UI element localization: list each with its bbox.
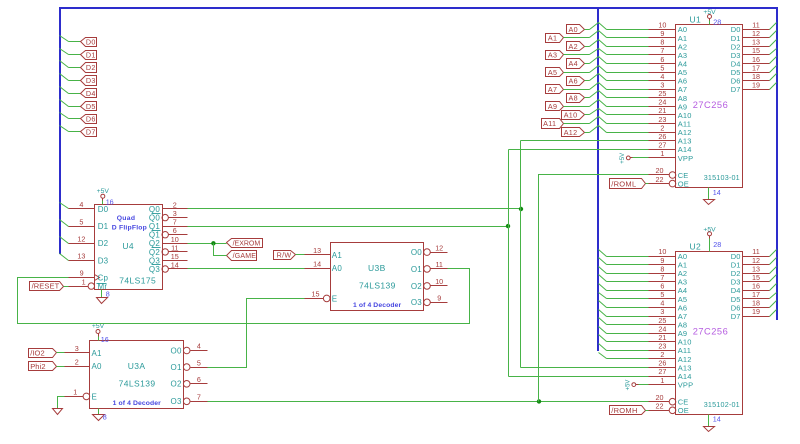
- pin 21 (A10) of U1: [649, 106, 692, 120]
- bus entry: address bus to U2 A7: [599, 310, 607, 317]
- IC U3B 74LS139 outline: [331, 243, 424, 311]
- +5V power symbol at U1 pin 28: [703, 9, 716, 24]
- hierarchical label A5: [546, 68, 564, 77]
- svg-text:U3A: U3A: [128, 361, 146, 371]
- hierarchical label A2: [567, 42, 585, 52]
- pin 20 (CE) of U2 with inversion bubble: [649, 393, 689, 407]
- svg-text:5: 5: [79, 217, 83, 226]
- pin 10 (A0) of U2: [649, 247, 688, 261]
- svg-text:315103-01: 315103-01: [704, 173, 740, 182]
- svg-text:A11: A11: [543, 119, 556, 128]
- pin 12 (D1) of U1: [731, 29, 770, 43]
- bus entry: address bus to U2 A0: [599, 250, 607, 257]
- wire: address bus entry to U2 A7 pin: [607, 316, 649, 318]
- pin 26 (A13) of U2: [649, 359, 692, 373]
- svg-text:A0: A0: [569, 25, 578, 34]
- wire: address bus entry to U1 A8 pin: [607, 97, 649, 99]
- wire: address bus entry to U2 A2 pin: [607, 273, 649, 275]
- pin 2 (A0) of U3A: [65, 357, 103, 371]
- bus entry (chevron) at address bus for U1 A12: [590, 126, 607, 133]
- pin 3 (A7) of U2: [649, 307, 688, 321]
- bus entry + wire: data bus to label D4: [60, 87, 81, 94]
- pin 5 (A5) of U2: [649, 290, 688, 304]
- svg-text:16: 16: [101, 335, 109, 344]
- svg-text:/RESET: /RESET: [32, 282, 60, 291]
- pin 27 (A14) of U2: [649, 367, 692, 381]
- wire: address bus entry to U2 A5 pin: [607, 298, 649, 300]
- svg-text:15: 15: [312, 290, 320, 299]
- wire: R/W label to U3B A1 pin: [296, 254, 305, 256]
- wire: address bus entry to U1 A1 pin: [607, 37, 649, 39]
- svg-text:A3: A3: [548, 51, 557, 60]
- hierarchical label D2: [81, 63, 97, 73]
- bus entry: data bus to U4 D1: [60, 220, 69, 227]
- svg-text:D1: D1: [86, 50, 96, 59]
- wire: label A12 to address bus: [585, 132, 590, 134]
- wire: branch down to /GAME label: [214, 244, 227, 256]
- wire: label /ROML to U1 OE pin: [646, 183, 649, 185]
- svg-text:O1: O1: [411, 265, 422, 274]
- pin 12 (O0) of U3B with inversion bubble: [411, 243, 448, 257]
- svg-text:12: 12: [77, 235, 85, 244]
- pin 7 (A3) of U2: [649, 273, 688, 287]
- bus: main data bus (left vertical, top horizontal, right vertical): [60, 8, 777, 320]
- junction on A13 net at U4 Q0 wire: [519, 207, 523, 211]
- svg-text:OE: OE: [678, 180, 689, 189]
- pin 9 (Cp clock) of U4: [69, 269, 109, 283]
- U2 reference designator: [690, 241, 702, 251]
- pin 4 (A6) of U2: [649, 299, 688, 313]
- junction on CE net below U1: [537, 399, 541, 403]
- hierarchical label R/W: [274, 251, 296, 260]
- pin 28 (VCC) of U1: [713, 18, 721, 27]
- +5V power symbol at U4 pin 16: [97, 188, 110, 205]
- svg-text:D6: D6: [86, 115, 96, 124]
- bus entry: U1 D5 to data bus: [770, 66, 777, 73]
- bus entry: address bus to U2 A5: [599, 293, 607, 299]
- bus entry (chevron) at address bus for U1 A9: [590, 100, 607, 107]
- wire: label A2 to address bus: [585, 46, 590, 48]
- svg-text:74LS175: 74LS175: [119, 275, 156, 285]
- wire: A14 net vertical to U1 A14 and U2 A14: [509, 150, 649, 377]
- hierarchical label /ROMH: [610, 406, 646, 416]
- bus entry: address bus to U2 A1: [599, 258, 607, 265]
- pin 8 (GND) of U4: [106, 290, 110, 299]
- svg-text:27C256: 27C256: [693, 327, 729, 337]
- svg-text:A4: A4: [569, 59, 578, 68]
- wire: label A7 to address bus: [564, 89, 590, 91]
- U4 description text Quad / D FlipFlop: [112, 215, 147, 231]
- svg-text:E: E: [92, 392, 98, 401]
- bus entry (chevron) at address bus for U1 A6: [590, 74, 607, 81]
- svg-text:D5: D5: [86, 102, 96, 111]
- svg-text:A2: A2: [569, 42, 578, 51]
- pin 23 (A11) of U1: [649, 115, 692, 129]
- svg-text:A1: A1: [548, 34, 557, 43]
- pin 7 (A3) of U1: [649, 46, 688, 60]
- ground symbol at U4 pin 8: [97, 290, 108, 304]
- pin 7 (Q1) of U4: [149, 218, 188, 231]
- svg-text:8: 8: [103, 413, 107, 422]
- svg-text:U3B: U3B: [368, 263, 386, 273]
- pin 27 (A14) of U1: [649, 141, 692, 155]
- bus entry: U1 D7 to data bus: [770, 83, 777, 90]
- bus entry (chevron) at address bus for U1 A11: [590, 117, 607, 124]
- svg-text:1 of 4 Decoder: 1 of 4 Decoder: [353, 302, 401, 309]
- pin 8 (A2) of U2: [649, 264, 688, 278]
- wire: address bus entry to U2 A8 pin: [607, 324, 649, 326]
- pin 17 (D5) of U2: [731, 290, 770, 304]
- bus entry + wire: data bus to label D6: [60, 113, 81, 119]
- pin 5 (A5) of U1: [649, 63, 688, 77]
- svg-text:14: 14: [713, 415, 721, 424]
- pin 13 (D3) of U4: [69, 252, 109, 266]
- bus entry (chevron) at address bus for U1 A0: [590, 23, 607, 30]
- svg-text:O2: O2: [171, 380, 182, 389]
- +5V power symbol at U3A pin 16: [92, 323, 105, 340]
- ground symbol at U3A pin 8: [93, 409, 105, 421]
- wire: address bus entry to U2 A11 pin: [607, 350, 649, 352]
- pin 18 (D6) of U1: [731, 72, 770, 86]
- pin 12 (D1) of U2: [731, 256, 770, 270]
- svg-text:D7: D7: [86, 128, 96, 137]
- bus entry (chevron) at address bus for U1 A7: [590, 83, 607, 90]
- EPROM U2 27C256 outline: [676, 252, 743, 415]
- hierarchical label A4: [567, 59, 585, 69]
- hierarchical label D4: [81, 89, 97, 98]
- hierarchical label /GAME: [227, 251, 257, 261]
- pin 24 (A9) of U1: [649, 98, 688, 112]
- U3B reference designator: [368, 263, 386, 273]
- wire: address bus entry to U1 A4 pin: [607, 63, 649, 65]
- EPROM U1 27C256 outline: [676, 25, 743, 188]
- wire: label A10 to address bus: [585, 114, 590, 116]
- wire: address bus entry to U2 A10 pin: [607, 341, 649, 343]
- svg-text:U4: U4: [122, 241, 134, 251]
- hierarchical label A9: [546, 102, 564, 112]
- U3A value 74LS139: [119, 379, 156, 389]
- wire: address bus entry to U1 A2 pin: [607, 46, 649, 48]
- bus entry + wire: data bus to label D7: [60, 126, 81, 132]
- hierarchical label A11: [542, 119, 564, 129]
- wire: U3A O1 (pin 5) to U3B E (pin 15): [208, 299, 305, 368]
- bus entry: data bus to U4 D0: [60, 203, 69, 209]
- wire: U4 Q0 (pin 2) to A13 net vertical: [188, 208, 521, 210]
- hierarchical label A12: [562, 128, 585, 137]
- wire: address bus entry to U2 A9 pin: [607, 333, 649, 335]
- svg-text:O1: O1: [171, 363, 182, 372]
- bus entry: address bus to U2 A11: [599, 344, 607, 351]
- svg-text:7: 7: [197, 393, 201, 402]
- bus entry (chevron) at address bus for U1 A4: [590, 57, 607, 64]
- svg-text:A5: A5: [548, 68, 557, 77]
- U1 reference designator: [690, 15, 702, 25]
- pin 5 (O1) of U3A with inversion bubble: [171, 358, 208, 372]
- wire: address bus entry to U2 A0 pin: [607, 256, 649, 258]
- +5V power symbol at U2 VPP (rotated): [626, 380, 639, 391]
- U4 value 74LS175: [119, 275, 156, 285]
- pin 11 (D0) of U2: [731, 247, 770, 261]
- wire: U3A O3 (pin 7) to U2 CE (pin 20) — ROM chip-enable net: [208, 401, 649, 403]
- wire: label A1 to address bus: [564, 37, 590, 39]
- svg-text:/ROMH: /ROMH: [611, 406, 638, 415]
- svg-text:1: 1: [82, 277, 86, 286]
- pin 16 (VCC) of U3A: [101, 335, 109, 344]
- bus: address bus (middle vertical): [597, 8, 599, 351]
- pin 15 (E enable) of U3B with inversion bubble: [305, 290, 338, 304]
- U1 part number 315103-01: [704, 173, 740, 182]
- pin 1 (VPP) of U2: [649, 376, 694, 390]
- pin 17 (D5) of U1: [731, 63, 770, 77]
- wire: address bus entry to U1 A7 pin: [607, 89, 649, 91]
- svg-text:Phi2: Phi2: [30, 362, 45, 371]
- svg-text:6: 6: [197, 375, 201, 384]
- svg-text:5: 5: [197, 358, 201, 367]
- svg-text:O3: O3: [171, 397, 182, 406]
- wire: label /ROMH to U2 OE pin: [646, 410, 649, 412]
- junction at /EXROM-/GAME branch: [211, 241, 215, 245]
- pin 6 (Q1-bar) of U4 with inversion bubble: [149, 226, 188, 239]
- pin 2 (A12) of U2: [649, 350, 692, 364]
- wire: address bus entry to U1 A9 pin: [607, 106, 649, 108]
- bus entry: U2 D0 to data bus: [770, 250, 777, 257]
- wire: label A8 to address bus: [585, 97, 590, 99]
- hierarchical label D0: [81, 38, 97, 47]
- +5V power symbol at U1 VPP (rotated): [620, 153, 632, 164]
- svg-text:R/W: R/W: [277, 251, 292, 260]
- svg-text:27C256: 27C256: [693, 100, 729, 110]
- svg-text:4: 4: [79, 200, 83, 209]
- svg-text:13: 13: [77, 252, 85, 261]
- svg-text:12: 12: [435, 243, 443, 252]
- bus entry + wire: data bus to label D3: [60, 74, 81, 81]
- svg-text:OE: OE: [678, 406, 689, 415]
- hierarchical label /ROML: [610, 179, 646, 189]
- svg-text:315102-01: 315102-01: [704, 400, 740, 409]
- pin 3 (Q0-bar) of U4 with inversion bubble: [149, 209, 188, 222]
- svg-text:19: 19: [752, 81, 760, 90]
- bus entry: data bus to U4 D3: [60, 254, 69, 261]
- wire: +5V to U2 VPP pin: [639, 384, 649, 386]
- svg-text:D3: D3: [98, 256, 109, 265]
- wire: label A3 to address bus: [564, 54, 590, 56]
- pin 19 (D7) of U1: [731, 81, 770, 95]
- wire: address bus entry to U2 A3 pin: [607, 281, 649, 283]
- bus entry: U1 D4 to data bus: [770, 57, 777, 64]
- svg-text:D4: D4: [86, 89, 96, 98]
- pin 4 (O0) of U3A with inversion bubble: [171, 342, 208, 356]
- pin 12 (D2) of U4: [69, 235, 109, 249]
- pin 20 (CE) of U1 with inversion bubble: [649, 166, 689, 180]
- pin 11 (D0) of U1: [731, 21, 770, 35]
- wire: address bus entry to U1 A0 pin: [607, 29, 649, 31]
- hierarchical label A3: [546, 51, 564, 60]
- bus entry: U2 D2 to data bus: [770, 267, 777, 274]
- pin 18 (D6) of U2: [731, 299, 770, 313]
- svg-text:1: 1: [660, 376, 664, 385]
- svg-text:2: 2: [75, 357, 79, 366]
- svg-text:+5V: +5V: [626, 380, 632, 391]
- pin 1 (Mr master reset) of U4 with inversion bubble: [69, 277, 108, 291]
- pin 25 (A8) of U1: [649, 89, 688, 103]
- wire: address bus entry to U2 A1 pin: [607, 264, 649, 266]
- wire: +5V to U1 VPP pin: [633, 157, 649, 159]
- pin 8 (A2) of U1: [649, 38, 688, 52]
- svg-text:1: 1: [73, 388, 77, 397]
- svg-text:8: 8: [106, 290, 110, 299]
- pin 23 (A11) of U2: [649, 342, 692, 356]
- svg-text:74LS139: 74LS139: [359, 281, 396, 291]
- pin 13 (A1) of U3B: [305, 246, 343, 260]
- wire: address bus entry to U1 A3 pin: [607, 54, 649, 56]
- wire: U4 Q3-bar (pin 14) to U3B A0 (pin 14): [188, 268, 305, 270]
- hierarchical label D6: [81, 115, 97, 124]
- pin 10 (A0) of U1: [649, 21, 688, 35]
- svg-text:/IO2: /IO2: [30, 349, 45, 358]
- wire: U3A E (pin 1) to ground: [58, 397, 65, 409]
- wire: address bus entry to U2 A6 pin: [607, 307, 649, 309]
- pin 10 (O2) of U3B with inversion bubble: [411, 277, 448, 291]
- ground symbol at U1 pin 14: [704, 188, 715, 205]
- svg-text:O0: O0: [411, 248, 422, 257]
- bus entry: U2 D3 to data bus: [770, 275, 777, 282]
- bus entry (chevron) at address bus for U1 A10: [590, 109, 607, 115]
- bus entry (chevron) at address bus for U1 A1: [590, 31, 607, 38]
- pin 26 (A13) of U1: [649, 132, 692, 146]
- svg-text:/ROML: /ROML: [611, 179, 636, 188]
- ground symbol at U3A E input: [53, 409, 63, 415]
- pin 6 (A4) of U1: [649, 55, 688, 69]
- pin 6 (A4) of U2: [649, 282, 688, 296]
- wire: /IO2 label to U3A A1 pin: [57, 352, 65, 354]
- hierarchical label A10: [562, 111, 585, 120]
- bus entry: U1 D3 to data bus: [770, 49, 777, 55]
- svg-text:D1: D1: [98, 222, 109, 231]
- bus entry: address bus to U2 A12: [599, 353, 607, 359]
- bus entry: U1 D0 to data bus: [770, 23, 777, 30]
- hierarchical label Phi2: [29, 362, 57, 371]
- bus entry: U2 D5 to data bus: [770, 293, 777, 299]
- hierarchical label A0: [567, 25, 585, 34]
- svg-text:A12: A12: [564, 128, 578, 137]
- pin 13 (D2) of U1: [731, 38, 770, 52]
- pin 1 (E enable) of U3A with inversion bubble: [65, 388, 98, 402]
- hierarchical label A8: [567, 94, 585, 103]
- wire: address bus entry to U1 A6 pin: [607, 80, 649, 82]
- svg-text:28: 28: [713, 18, 721, 27]
- pin 2 (Q0) of U4: [149, 201, 188, 214]
- svg-text:D0: D0: [86, 38, 96, 47]
- pin 9 (A1) of U1: [649, 29, 688, 43]
- hierarchical label D7: [81, 128, 97, 137]
- pin 7 (O3) of U3A with inversion bubble: [171, 393, 208, 407]
- svg-text:10: 10: [435, 277, 443, 286]
- pin 5 (D1) of U4: [69, 217, 109, 231]
- wire: address bus entry to U1 A5 pin: [607, 72, 649, 74]
- U3B description text 1 of 4 Decoder: [353, 302, 401, 309]
- wire: U4 Q2 (pin 10) to /EXROM label: [188, 243, 227, 245]
- bus entry: address bus to U2 A10: [599, 335, 607, 342]
- wire: U4 Q1 (pin 7) to A14 net vertical: [188, 226, 509, 228]
- bus entry + wire: data bus to label D5: [60, 100, 81, 107]
- bus entry: address bus to U2 A9: [599, 327, 607, 334]
- pin 28 (VCC) of U2: [713, 240, 721, 249]
- svg-text:D7: D7: [731, 312, 741, 321]
- IC U4 74LS175 outline: [95, 205, 163, 290]
- pin 9 (A1) of U2: [649, 256, 688, 270]
- pin 6 (O2) of U3A with inversion bubble: [171, 375, 208, 389]
- svg-text:VPP: VPP: [678, 381, 694, 390]
- svg-text:/GAME: /GAME: [233, 253, 257, 260]
- U1 value 27C256: [693, 100, 729, 110]
- +5V power symbol at U2 pin 28: [703, 226, 716, 251]
- bus entry: address bus to U2 A2: [599, 267, 607, 274]
- svg-text:A8: A8: [569, 94, 578, 103]
- bus entry: address bus to U2 A8: [599, 318, 607, 325]
- hierarchical label D5: [81, 102, 97, 111]
- wire: label A6 to address bus: [585, 80, 590, 82]
- bus entry: address bus to U2 A6: [599, 301, 607, 308]
- bus entry (chevron) at address bus for U1 A2: [590, 40, 607, 47]
- pin 9 (O3) of U3B with inversion bubble: [411, 294, 448, 308]
- pin 25 (A8) of U2: [649, 316, 688, 330]
- U4 reference designator: [122, 241, 134, 251]
- svg-text:D7: D7: [731, 85, 741, 94]
- svg-text:14: 14: [313, 260, 321, 269]
- wire: A13 net vertical to U1 A13 and U2 A13: [521, 141, 649, 368]
- wire: label A5 to address bus: [564, 72, 590, 74]
- svg-text:A0: A0: [92, 362, 103, 371]
- pin 3 (A7) of U1: [649, 81, 688, 95]
- svg-text:E: E: [332, 294, 338, 303]
- wire: label A0 to address bus: [585, 29, 590, 31]
- svg-text:22: 22: [656, 175, 664, 184]
- svg-text:U2: U2: [690, 241, 702, 251]
- U3A reference designator: [128, 361, 146, 371]
- pin 3 (A1) of U3A: [65, 344, 103, 358]
- pin 14 (GND) of U1: [713, 188, 721, 197]
- bus entry: data bus to U4 D2: [60, 237, 69, 244]
- hierarchical label A7: [546, 85, 564, 94]
- ground symbol at U2 pin 14: [704, 415, 715, 432]
- wire: label A11 to address bus: [564, 123, 590, 125]
- hierarchical label /IO2: [29, 349, 57, 358]
- U3B value 74LS139: [359, 281, 396, 291]
- pin 4 (A6) of U1: [649, 72, 688, 86]
- svg-text:9: 9: [437, 294, 441, 303]
- pin 14 (GND) of U2: [713, 415, 721, 424]
- svg-text:/EXROM: /EXROM: [233, 241, 261, 248]
- bus entry: address bus to U2 A3: [599, 275, 607, 282]
- wire: label A4 to address bus: [585, 63, 590, 65]
- svg-text:22: 22: [656, 402, 664, 411]
- bus entry: U1 D2 to data bus: [770, 40, 777, 47]
- svg-text:O2: O2: [411, 282, 422, 291]
- pin 22 (OE) of U1 with inversion bubble: [649, 175, 689, 189]
- hierarchical label D1: [81, 50, 97, 59]
- pin 8 (GND) of U3A: [103, 413, 107, 422]
- svg-text:13: 13: [313, 246, 321, 255]
- svg-text:28: 28: [713, 240, 721, 249]
- pin 1 (VPP) of U1: [649, 149, 694, 163]
- U2 part number 315102-01: [704, 400, 740, 409]
- svg-text:19: 19: [752, 307, 760, 316]
- svg-text:VPP: VPP: [678, 154, 694, 163]
- junction on A14 net at U4 Q1 wire: [506, 224, 510, 228]
- hierarchical label A1: [546, 34, 564, 43]
- svg-text:+5V: +5V: [703, 226, 716, 233]
- bus entry: address bus to U2 A4: [599, 284, 607, 291]
